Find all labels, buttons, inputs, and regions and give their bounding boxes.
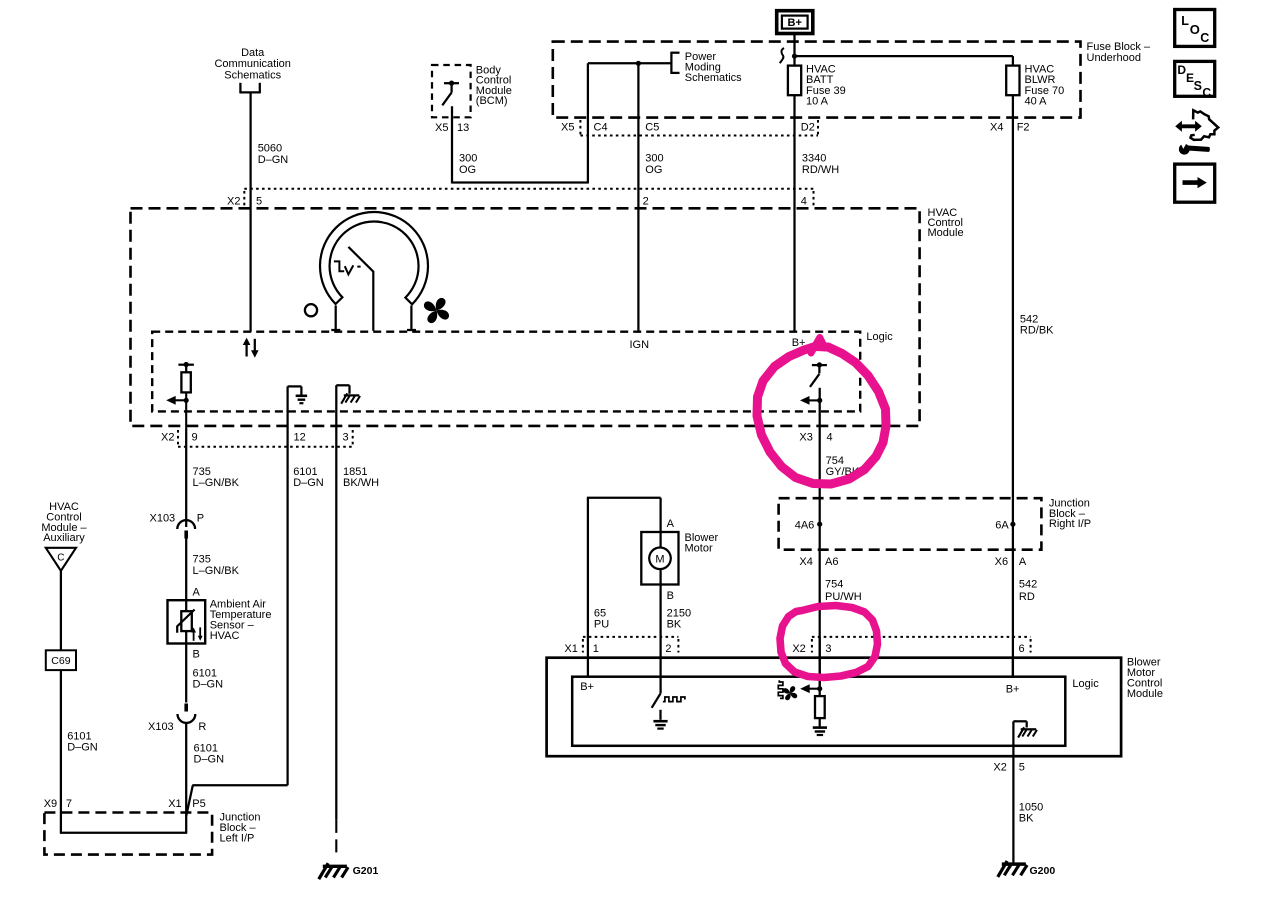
wire 6101 D-GN from C69 bbox=[60, 670, 62, 833]
node Data Communication Schematics label bbox=[214, 47, 290, 81]
sensor pin label A bbox=[193, 587, 201, 599]
svg-text:Module: Module bbox=[1127, 688, 1163, 700]
svg-text:X2: X2 bbox=[227, 196, 240, 208]
svg-text:3: 3 bbox=[343, 431, 349, 443]
connector pin label 3 bbox=[343, 431, 349, 443]
svg-text:2: 2 bbox=[643, 196, 649, 208]
knob legs bbox=[331, 306, 416, 331]
sense resistor to ground bbox=[813, 696, 827, 735]
svg-text:13: 13 bbox=[457, 122, 469, 134]
wire from driver to X3 pin 4 bbox=[819, 388, 821, 448]
svg-text:O: O bbox=[1190, 22, 1200, 37]
svg-text:X9: X9 bbox=[44, 798, 57, 810]
svg-text:A: A bbox=[193, 587, 201, 599]
wire label 1851 BK/WH bbox=[343, 466, 379, 489]
svg-text:6101: 6101 bbox=[194, 743, 218, 755]
fuse 70 label bbox=[1025, 64, 1065, 108]
svg-text:Logic: Logic bbox=[1072, 678, 1099, 690]
svg-text:Right I/P: Right I/P bbox=[1049, 518, 1091, 530]
connector label D2 bbox=[801, 121, 815, 133]
inline connector X103 pin P bbox=[177, 520, 195, 538]
junction node C5 branch bbox=[636, 61, 641, 66]
svg-text:C: C bbox=[57, 553, 64, 564]
svg-text:P: P bbox=[197, 513, 204, 525]
output arrow at sensor input bbox=[166, 396, 189, 405]
svg-text:D–GN: D–GN bbox=[293, 477, 324, 489]
svg-text:542: 542 bbox=[1019, 579, 1037, 591]
wire 1851 to G201 (with inline dash) bbox=[335, 820, 337, 859]
svg-text:3340: 3340 bbox=[802, 153, 826, 165]
svg-text:3: 3 bbox=[825, 643, 831, 655]
svg-text:10 A: 10 A bbox=[806, 96, 829, 108]
svg-text:754: 754 bbox=[825, 579, 843, 591]
fuse block bottom connector row X5 C4 C5 D2 (dotted) bbox=[580, 120, 818, 136]
wire 3340 RD/WH from fuse 39 bbox=[793, 95, 795, 332]
motor symbol M bbox=[649, 548, 671, 570]
wire 754 GY/BK label bbox=[826, 455, 860, 478]
bus wire to HVAC BLWR fuse bbox=[795, 56, 1013, 66]
HVAC control module auxiliary label bbox=[41, 501, 87, 544]
blower motor control module (solid box) bbox=[547, 658, 1122, 757]
PWM vertical waveform glyph bbox=[778, 680, 783, 698]
fuse HVAC BLWR Fuse 70 40A bbox=[1006, 66, 1019, 96]
wire 735 to X103 bbox=[185, 429, 187, 527]
connector X5 pin 13 of BCM bbox=[435, 122, 469, 134]
svg-text:RD/BK: RD/BK bbox=[1020, 325, 1054, 337]
svg-text:300: 300 bbox=[645, 153, 663, 165]
wire 300 OG (right, IGN) bbox=[637, 63, 639, 331]
PWM waveform glyph bbox=[663, 697, 685, 702]
blower module connector row (dotted) X1 1 2 / X2 3 6 bbox=[583, 637, 1031, 653]
svg-text:754: 754 bbox=[826, 455, 844, 467]
wire label 6101 D-GN (pin 12 wire) bbox=[293, 466, 324, 489]
wire from triangle to C69 bbox=[60, 571, 62, 651]
svg-text:L–GN/BK: L–GN/BK bbox=[193, 477, 240, 489]
svg-text:L: L bbox=[1181, 14, 1189, 28]
inline connector C69 bbox=[46, 650, 76, 670]
svg-text:5: 5 bbox=[256, 196, 262, 208]
blower logic box (solid) bbox=[572, 677, 1065, 746]
svg-text:A: A bbox=[667, 518, 675, 530]
svg-text:735: 735 bbox=[193, 554, 211, 566]
wire label 6101 D-GN (left column) bbox=[67, 731, 98, 754]
IGN node label bbox=[630, 339, 650, 351]
svg-text:X3: X3 bbox=[799, 431, 812, 443]
svg-text:9: 9 bbox=[192, 431, 198, 443]
svg-text:X6: X6 bbox=[995, 556, 1008, 568]
svg-text:1851: 1851 bbox=[343, 466, 367, 478]
wire label 6101 D-GN (below sensor) bbox=[193, 667, 224, 690]
fuse block - underhood (dashed box) bbox=[553, 42, 1081, 118]
forward reference icon box bbox=[1175, 164, 1215, 202]
wire 1050 BK bbox=[1012, 756, 1014, 863]
wire B+ into fuse block bbox=[793, 35, 795, 67]
serial data arrows bbox=[243, 338, 259, 358]
speed command arrow bbox=[800, 684, 822, 693]
blower motor (box) bbox=[641, 532, 678, 585]
wire through junction block (542) bbox=[1012, 498, 1014, 550]
wire label 1050 BK bbox=[1019, 802, 1043, 825]
svg-text:C5: C5 bbox=[645, 121, 659, 133]
motor pin label B bbox=[667, 590, 674, 602]
HVAC control module connector row X2 5 / 2 / 4 (dotted) bbox=[244, 189, 813, 208]
connector labels X4 A6 bbox=[799, 556, 838, 568]
wire 542 end at logic bbox=[1012, 658, 1014, 678]
fuse block label bbox=[1087, 41, 1151, 64]
wire label 300 OG (left) bbox=[459, 153, 477, 176]
sensor pin label B bbox=[193, 649, 200, 661]
svg-text:OG: OG bbox=[459, 164, 476, 176]
svg-text:B: B bbox=[193, 649, 200, 661]
off-page triangle C (auxiliary) bbox=[46, 548, 76, 571]
off-page bracket to Data Communication Schematics bbox=[239, 83, 260, 93]
junction block left I/P (dashed box) bbox=[44, 813, 212, 855]
svg-text:B: B bbox=[667, 590, 674, 602]
svg-text:Schematics: Schematics bbox=[685, 72, 742, 84]
svg-text:Data: Data bbox=[241, 47, 265, 59]
svg-text:Logic: Logic bbox=[866, 331, 893, 343]
output arrow at driver bbox=[800, 396, 822, 405]
svg-text:L–GN/BK: L–GN/BK bbox=[193, 565, 240, 577]
svg-text:X103: X103 bbox=[149, 513, 175, 525]
svg-text:300: 300 bbox=[459, 153, 477, 165]
wire 754 PU/WH bbox=[819, 550, 821, 689]
thermistor symbol bbox=[177, 610, 202, 641]
blower logic label bbox=[1072, 678, 1099, 690]
wire 300 OG from BCM bbox=[452, 63, 588, 183]
ground G200 bbox=[998, 861, 1056, 877]
svg-text:4A6: 4A6 bbox=[795, 520, 815, 532]
HVAC module bottom connector row X2 9 12 3 (dotted) bbox=[178, 430, 353, 447]
blower module label bbox=[1127, 657, 1163, 700]
body control module BCM (dashed box) bbox=[432, 65, 471, 117]
svg-text:X103: X103 bbox=[148, 721, 174, 733]
fuse HVAC BATT Fuse 39 10A bbox=[788, 66, 801, 96]
connector pin label 2 bbox=[643, 196, 649, 208]
connector labels X2 5 bbox=[227, 196, 262, 208]
svg-text:D2: D2 bbox=[801, 121, 815, 133]
svg-text:C: C bbox=[1202, 85, 1211, 99]
bus inside junction block bbox=[60, 832, 187, 834]
wire label 65 PU bbox=[594, 608, 609, 631]
svg-text:IGN: IGN bbox=[630, 339, 650, 351]
HVAC control module (dashed box) bbox=[131, 208, 920, 426]
wire 754 from X3-4 to junction block bbox=[819, 448, 821, 499]
connector labels X6 A bbox=[995, 556, 1027, 568]
knob pointer lever bbox=[348, 247, 373, 331]
junction block right label bbox=[1049, 497, 1091, 530]
wire 542 RD bbox=[1012, 550, 1014, 678]
wire 6101 sensor to X103 R bbox=[185, 644, 187, 703]
svg-text:Motor: Motor bbox=[685, 542, 713, 554]
connector labels X1 1 bbox=[564, 643, 598, 655]
connector labels X1 P5 bbox=[168, 798, 206, 810]
connector pin label 12 bbox=[294, 431, 306, 443]
svg-text:(BCM): (BCM) bbox=[476, 95, 508, 107]
fuse 39 label bbox=[806, 64, 846, 108]
svg-text:X1: X1 bbox=[564, 643, 577, 655]
fusible element curl bbox=[780, 48, 784, 63]
connector labels X3 4 bbox=[799, 431, 832, 443]
diagnostics icon (arrows + connector + wrench) bbox=[1175, 110, 1218, 156]
svg-text:M: M bbox=[655, 554, 664, 566]
svg-text:B+: B+ bbox=[1006, 683, 1020, 695]
svg-text:65: 65 bbox=[594, 608, 606, 620]
svg-text:A: A bbox=[1019, 556, 1027, 568]
svg-text:X5: X5 bbox=[561, 121, 574, 133]
svg-text:1: 1 bbox=[593, 643, 599, 655]
svg-text:G200: G200 bbox=[1030, 865, 1056, 877]
junction block left label bbox=[220, 812, 261, 845]
wire 65 PU blower feed bbox=[587, 498, 661, 677]
svg-text:7: 7 bbox=[66, 798, 72, 810]
svg-text:Fuse Block –: Fuse Block – bbox=[1087, 41, 1151, 53]
connector label C5 bbox=[645, 121, 659, 133]
inline connector X103 pin R bbox=[178, 704, 196, 723]
wire label 735 L-GN/BK (upper) bbox=[193, 466, 240, 489]
svg-text:P5: P5 bbox=[192, 798, 205, 810]
connector pin label 6 bbox=[1019, 643, 1025, 655]
svg-text:X1: X1 bbox=[168, 798, 181, 810]
annotation: pink circle around blower driver / X3-4 bbox=[757, 338, 886, 485]
svg-text:X4: X4 bbox=[990, 121, 1003, 133]
knob fan-speed glyph bbox=[424, 298, 449, 323]
wire 542 RD/BK from fuse 70 bbox=[1012, 95, 1014, 498]
pull-up resistor (sensor input) bbox=[178, 362, 194, 429]
svg-text:2: 2 bbox=[665, 643, 671, 655]
wire 2150 BK bbox=[659, 585, 661, 694]
svg-text:6101: 6101 bbox=[293, 466, 317, 478]
svg-text:12: 12 bbox=[294, 431, 306, 443]
svg-text:Module: Module bbox=[928, 227, 964, 239]
connector labels X103 P bbox=[149, 513, 204, 525]
blower driver switch (HVAC logic) bbox=[810, 362, 827, 387]
BCM label bbox=[476, 64, 512, 107]
module ground return hook (chassis) bbox=[1013, 721, 1037, 756]
svg-text:6A: 6A bbox=[995, 520, 1009, 532]
svg-text:C: C bbox=[1200, 31, 1209, 45]
svg-text:F2: F2 bbox=[1017, 121, 1030, 133]
PWM switch to ground (blower return) bbox=[652, 693, 668, 728]
connector labels X2 5 (blower bottom) bbox=[993, 761, 1024, 773]
wire label 542 RD bbox=[1019, 579, 1037, 603]
svg-text:1050: 1050 bbox=[1019, 802, 1043, 814]
knob off position circle bbox=[305, 304, 317, 316]
fan command glyph bbox=[783, 686, 797, 700]
junction node at B+ bus bbox=[792, 54, 797, 59]
svg-text:C69: C69 bbox=[51, 655, 70, 667]
svg-text:OG: OG bbox=[645, 164, 662, 176]
power moding label bbox=[685, 51, 742, 84]
svg-text:Auxiliary: Auxiliary bbox=[43, 532, 85, 544]
blower motor label bbox=[685, 532, 719, 554]
svg-text:X5: X5 bbox=[435, 122, 448, 134]
logic box of HVAC module (dashed) bbox=[152, 332, 860, 412]
svg-text:S: S bbox=[1194, 79, 1202, 93]
power moding schematics bracket bbox=[588, 52, 680, 74]
ground G201 bbox=[319, 863, 379, 879]
knob temperature glyph bbox=[334, 261, 361, 274]
wire 754 into logic bbox=[819, 637, 821, 697]
wire label 754 PU/WH bbox=[825, 579, 862, 603]
node 6A bbox=[995, 520, 1015, 532]
connector labels X103 R bbox=[148, 721, 206, 733]
connector pin label 2 bbox=[665, 643, 671, 655]
merge of pin12 ground wire into sensor return bbox=[186, 785, 287, 816]
wire label 735 L-GN/BK (lower) bbox=[193, 554, 240, 577]
ambient air temperature sensor (box) bbox=[168, 600, 206, 643]
blower/temperature control knob bbox=[320, 212, 428, 304]
svg-text:RD/WH: RD/WH bbox=[802, 164, 839, 176]
LOC reference icon box bbox=[1175, 10, 1215, 47]
svg-text:R: R bbox=[198, 721, 206, 733]
svg-text:D–GN: D–GN bbox=[67, 742, 98, 754]
DESC reference icon box bbox=[1175, 61, 1215, 99]
wire 735 to sensor bbox=[185, 539, 187, 601]
svg-text:A6: A6 bbox=[825, 556, 838, 568]
svg-text:D–GN: D–GN bbox=[258, 154, 289, 166]
connector labels X2 9 bbox=[161, 431, 198, 443]
svg-text:G201: G201 bbox=[353, 865, 379, 877]
svg-text:4: 4 bbox=[801, 196, 807, 208]
connector pin label 4 bbox=[801, 196, 807, 208]
svg-text:2150: 2150 bbox=[667, 608, 691, 620]
svg-text:Underhood: Underhood bbox=[1087, 52, 1141, 64]
wire label 300 OG (right) bbox=[645, 153, 663, 176]
svg-text:5060: 5060 bbox=[258, 143, 282, 155]
svg-text:BK: BK bbox=[1019, 813, 1034, 825]
wire 6101 to junction block bbox=[185, 723, 187, 833]
sensor label bbox=[210, 599, 272, 642]
logic label bbox=[866, 331, 893, 343]
svg-text:C4: C4 bbox=[594, 121, 608, 133]
svg-text:X2: X2 bbox=[993, 761, 1006, 773]
connector labels X4 F2 bbox=[990, 121, 1030, 133]
wire 5060 D-GN (serial data) bbox=[249, 92, 251, 331]
svg-text:PU: PU bbox=[594, 619, 609, 631]
svg-text:HVAC: HVAC bbox=[210, 630, 240, 642]
svg-text:6: 6 bbox=[1019, 643, 1025, 655]
svg-text:PU/WH: PU/WH bbox=[825, 591, 862, 603]
svg-text:D–GN: D–GN bbox=[194, 754, 225, 766]
svg-text:BK/WH: BK/WH bbox=[343, 477, 379, 489]
wire label 2150 BK bbox=[667, 608, 691, 631]
connector labels X2 3 bbox=[792, 643, 831, 655]
wire through junction block (754) bbox=[819, 498, 821, 550]
B+ power symbol box bbox=[777, 11, 813, 34]
svg-text:BK: BK bbox=[667, 619, 682, 631]
svg-text:B+: B+ bbox=[788, 17, 802, 29]
svg-text:6101: 6101 bbox=[67, 731, 91, 743]
annotation: pink circle around X2-3 bbox=[780, 606, 878, 678]
connector labels X9 7 bbox=[44, 798, 72, 810]
svg-text:Schematics: Schematics bbox=[224, 69, 281, 81]
svg-text:D–GN: D–GN bbox=[193, 679, 224, 691]
wire label 542 RD/BK bbox=[1020, 314, 1054, 337]
svg-text:X4: X4 bbox=[799, 556, 812, 568]
svg-text:Left I/P: Left I/P bbox=[220, 832, 255, 844]
svg-text:6101: 6101 bbox=[193, 667, 217, 679]
B+ node label (blower, left) bbox=[580, 681, 594, 693]
switch (driver) inside BCM bbox=[442, 81, 459, 106]
ground return pin 3 (chassis symbol) bbox=[336, 385, 360, 820]
svg-text:X2: X2 bbox=[161, 431, 174, 443]
svg-text:X2: X2 bbox=[792, 643, 805, 655]
svg-text:B+: B+ bbox=[580, 681, 594, 693]
motor pin label A bbox=[667, 518, 675, 530]
connector labels X5 C4 bbox=[561, 121, 608, 133]
svg-text:Communication: Communication bbox=[214, 58, 290, 70]
node 4A6 bbox=[795, 520, 823, 532]
svg-text:735: 735 bbox=[193, 466, 211, 478]
svg-text:40 A: 40 A bbox=[1025, 96, 1048, 108]
B+ node label (blower, right) bbox=[1006, 683, 1020, 695]
junction block right I/P (dashed box) bbox=[779, 498, 1042, 550]
svg-text:542: 542 bbox=[1020, 314, 1038, 326]
HVAC control module label bbox=[928, 207, 964, 239]
svg-text:4: 4 bbox=[827, 431, 833, 443]
wire label 3340 RD/WH bbox=[802, 153, 839, 176]
svg-text:RD: RD bbox=[1019, 591, 1035, 603]
wire label 6101 D-GN (lowest) bbox=[194, 743, 225, 766]
B+ node label (HVAC logic) bbox=[792, 337, 806, 349]
ground return pin 12 (earth symbol) bbox=[288, 386, 308, 785]
svg-text:5: 5 bbox=[1019, 761, 1025, 773]
wire label 5060 D-GN bbox=[258, 143, 289, 166]
